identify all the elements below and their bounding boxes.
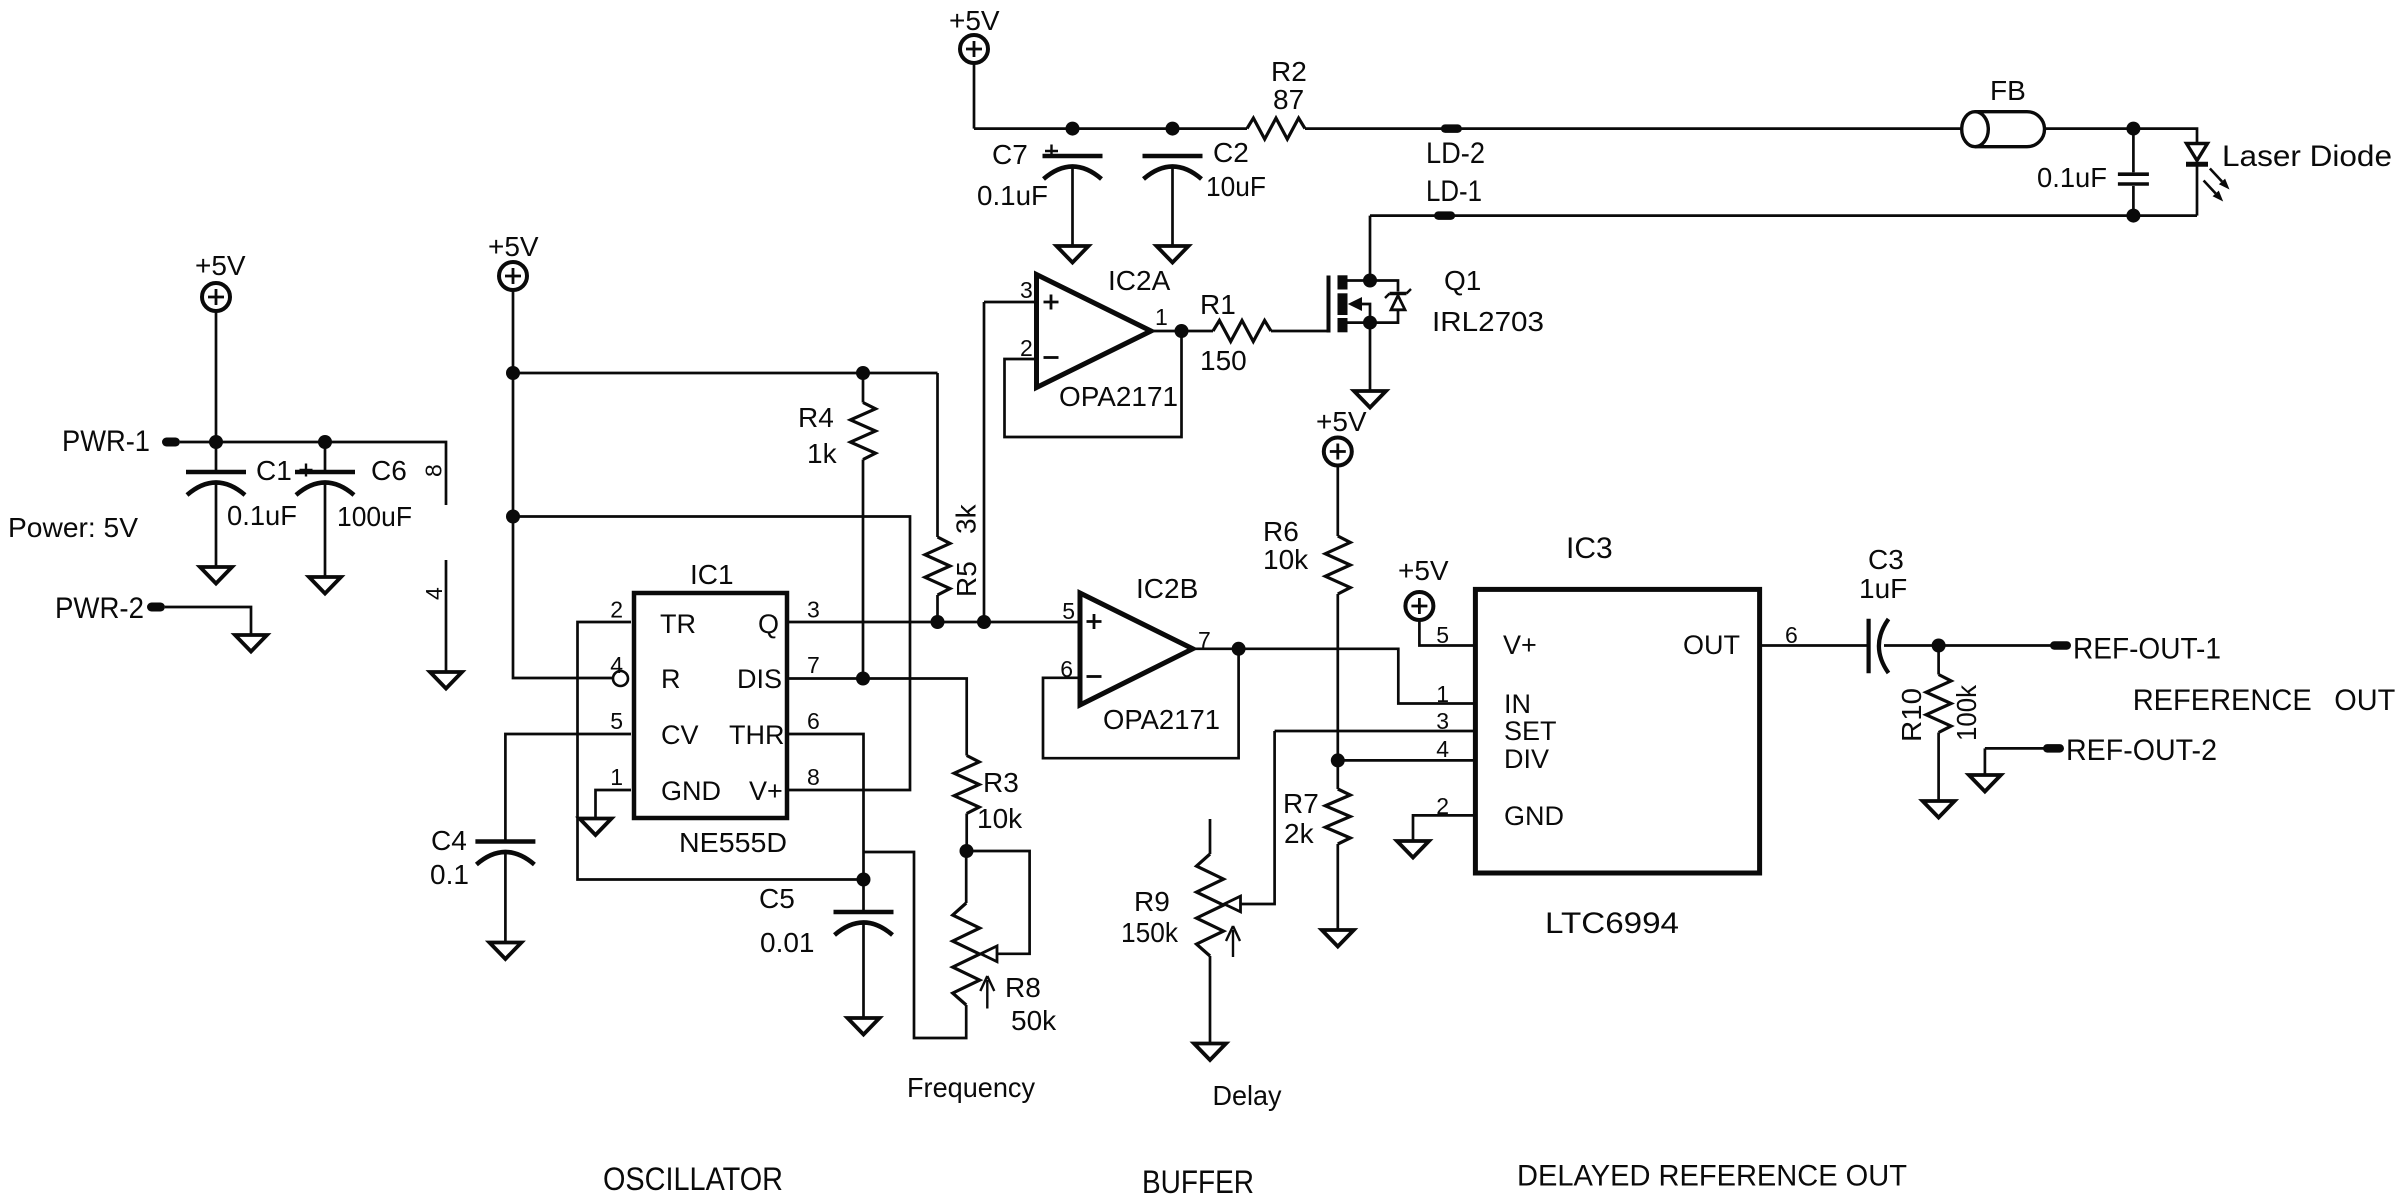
svg-text:C7: C7 (992, 139, 1028, 170)
svg-text:0.01: 0.01 (760, 927, 815, 958)
svg-text:GND: GND (661, 776, 721, 806)
svg-text:6: 6 (1060, 656, 1073, 682)
svg-text:C1: C1 (256, 455, 292, 486)
svg-text:3k: 3k (951, 503, 982, 534)
svg-text:5: 5 (1062, 598, 1075, 624)
svg-text:10k: 10k (1263, 544, 1309, 575)
svg-text:6: 6 (807, 708, 820, 734)
svg-text:R: R (661, 664, 681, 694)
svg-text:Q: Q (758, 609, 779, 639)
svg-text:DIS: DIS (737, 664, 782, 694)
svg-text:R6: R6 (1263, 516, 1299, 547)
svg-text:Frequency: Frequency (907, 1072, 1035, 1103)
svg-text:2k: 2k (1284, 818, 1315, 849)
svg-text:100k: 100k (1951, 684, 1982, 741)
svg-text:C5: C5 (759, 883, 795, 914)
svg-text:0.1uF: 0.1uF (977, 180, 1048, 211)
svg-text:4: 4 (1436, 736, 1449, 762)
svg-text:R5: R5 (951, 561, 982, 597)
svg-text:REF-OUT-1: REF-OUT-1 (2073, 633, 2221, 666)
svg-text:0.1uF: 0.1uF (2037, 162, 2107, 193)
svg-text:+5V: +5V (1398, 555, 1449, 586)
svg-text:8: 8 (807, 764, 820, 790)
svg-text:OSCILLATOR: OSCILLATOR (603, 1161, 783, 1197)
svg-text:TR: TR (660, 609, 696, 639)
svg-text:150k: 150k (1121, 917, 1179, 948)
svg-text:IC2B: IC2B (1136, 573, 1198, 604)
svg-text:R9: R9 (1134, 886, 1170, 917)
svg-text:50k: 50k (1011, 1005, 1057, 1036)
svg-text:0.1: 0.1 (430, 859, 469, 890)
svg-text:DELAYED REFERENCE OUT: DELAYED REFERENCE OUT (1517, 1160, 1907, 1193)
svg-text:BUFFER: BUFFER (1142, 1164, 1254, 1199)
svg-text:R1: R1 (1200, 289, 1236, 320)
svg-text:7: 7 (807, 652, 820, 678)
svg-text:1: 1 (610, 764, 623, 790)
svg-text:7: 7 (1198, 627, 1211, 653)
svg-text:10uF: 10uF (1206, 171, 1266, 202)
svg-text:C2: C2 (1213, 137, 1249, 168)
svg-text:Power: 5V: Power: 5V (8, 512, 138, 543)
svg-text:IC3: IC3 (1566, 532, 1613, 565)
svg-text:GND: GND (1504, 801, 1564, 831)
svg-text:OPA2171: OPA2171 (1103, 704, 1220, 735)
svg-text:V+: V+ (749, 776, 783, 806)
svg-text:+5V: +5V (1316, 406, 1367, 437)
svg-text:R8: R8 (1005, 972, 1041, 1003)
svg-text:CV: CV (661, 720, 699, 750)
svg-text:R4: R4 (798, 402, 834, 433)
svg-text:PWR-1: PWR-1 (62, 425, 150, 458)
svg-text:OPA2171: OPA2171 (1059, 381, 1178, 412)
svg-text:Q1: Q1 (1444, 265, 1481, 296)
svg-text:PWR-2: PWR-2 (55, 592, 144, 625)
svg-text:2: 2 (610, 597, 623, 623)
svg-text:SET: SET (1504, 716, 1557, 746)
svg-text:1: 1 (1436, 681, 1449, 707)
svg-text:IRL2703: IRL2703 (1432, 306, 1544, 337)
svg-text:3: 3 (1020, 277, 1033, 303)
svg-text:IC1: IC1 (690, 559, 734, 590)
svg-text:C3: C3 (1868, 544, 1904, 575)
svg-text:REF-OUT-2: REF-OUT-2 (2066, 734, 2217, 767)
svg-text:DIV: DIV (1504, 744, 1549, 774)
svg-text:5: 5 (1436, 622, 1449, 648)
svg-text:1k: 1k (807, 438, 838, 469)
svg-text:5: 5 (610, 708, 623, 734)
svg-text:V+: V+ (1503, 630, 1537, 660)
svg-text:1: 1 (1155, 304, 1168, 330)
svg-text:R3: R3 (983, 767, 1019, 798)
svg-text:6: 6 (1785, 622, 1798, 648)
svg-text:8: 8 (421, 464, 447, 477)
svg-text:Delay: Delay (1213, 1080, 1282, 1111)
svg-text:LTC6994: LTC6994 (1545, 907, 1679, 940)
svg-text:2: 2 (1020, 335, 1033, 361)
svg-text:IN: IN (1504, 689, 1531, 719)
svg-text:FB: FB (1990, 75, 2026, 106)
svg-text:THR: THR (729, 720, 785, 750)
svg-text:1uF: 1uF (1859, 573, 1907, 604)
svg-text:C6: C6 (371, 455, 407, 486)
svg-text:OUT: OUT (1683, 630, 1740, 660)
svg-text:REFERENCE: REFERENCE (2133, 684, 2312, 717)
svg-text:+5V: +5V (488, 231, 539, 262)
svg-text:LD-2: LD-2 (1426, 137, 1485, 170)
svg-text:R7: R7 (1283, 788, 1319, 819)
svg-text:87: 87 (1273, 84, 1304, 115)
svg-text:4: 4 (421, 587, 447, 600)
svg-text:10k: 10k (977, 803, 1023, 834)
svg-text:+5V: +5V (949, 5, 1000, 36)
svg-text:R2: R2 (1271, 56, 1307, 87)
svg-text:3: 3 (807, 597, 820, 623)
svg-text:OUT: OUT (2334, 684, 2395, 717)
svg-text:R10: R10 (1896, 688, 1927, 742)
svg-text:NE555D: NE555D (679, 827, 787, 858)
svg-text:3: 3 (1436, 708, 1449, 734)
svg-text:+5V: +5V (195, 250, 246, 281)
svg-text:IC2A: IC2A (1108, 265, 1171, 296)
svg-text:100uF: 100uF (337, 501, 412, 532)
svg-text:4: 4 (610, 652, 623, 678)
svg-text:Laser Diode: Laser Diode (2222, 140, 2392, 173)
svg-text:C4: C4 (431, 825, 467, 856)
svg-text:LD-1: LD-1 (1426, 175, 1482, 208)
svg-text:0.1uF: 0.1uF (227, 500, 297, 531)
svg-text:150: 150 (1200, 345, 1247, 376)
svg-text:2: 2 (1436, 793, 1449, 819)
